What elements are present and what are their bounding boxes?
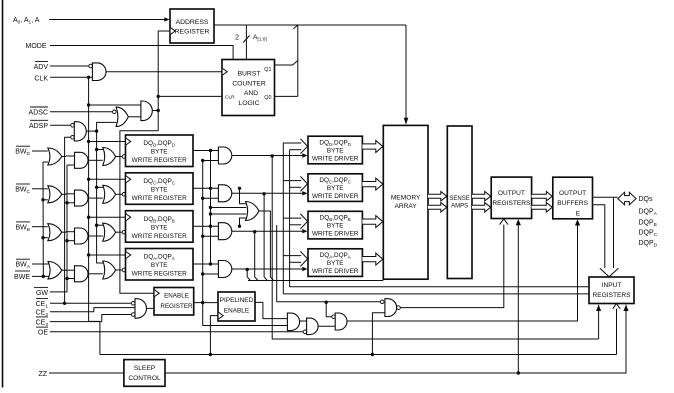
svg-text:OE: OE [38,330,48,337]
svg-text:BYTE: BYTE [327,148,344,155]
svg-text:DQA,DQPA: DQA,DQPA [320,252,351,260]
gate byte-write drive row1 (AND) [218,147,231,164]
wire GW riser tap row2 [67,202,75,204]
svg-text:Q1: Q1 [264,67,271,73]
svg-text:SENSE: SENSE [449,196,469,202]
wire CLK to pipelined enable clock [210,316,218,355]
wire CE3 to enable gate [50,315,131,322]
wire CLK tap register row2 [89,178,126,180]
junction dot CLK tap gateD [371,353,374,356]
wire enable-register tap row2 [203,197,219,199]
byte write driver box row3 [308,211,362,239]
svg-text:BYTE: BYTE [151,186,168,193]
wire data riser line4 feed [276,225,278,302]
svg-text:REGISTER: REGISTER [160,303,193,310]
wire enable-register tap row4 [203,273,219,275]
wire write-select to gateC [326,302,332,317]
wire G4 output to clock node [152,110,158,112]
arrowhead into input registers from write bus [596,305,601,311]
junction dot write-select tap [325,301,328,304]
wire gate5 input from row2 [240,188,246,204]
gate chip-enable (AND) [135,299,146,319]
clock input triangle of burst counter [223,68,228,75]
wire output buffers to DQ pads [593,196,618,198]
junction dot CLK branch [87,76,90,79]
wire enable tap to row OR gate row2 [97,186,104,188]
wire to row OR gate row2 [88,197,103,199]
hollow arrowhead into write driver row1 [300,139,307,154]
wire Q0 output to address bus [275,95,298,97]
wire CE1 to enable gate [50,302,131,304]
wire enable-register tap row3 [203,235,219,237]
junction dot GW riser [65,239,68,242]
pipelined enable box [218,292,255,321]
svg-text:DQC,DQPC: DQC,DQPC [143,178,175,186]
wire BWA to gate [32,263,49,265]
input registers box [589,277,634,304]
gate byte-write A input (OR) [48,262,62,279]
svg-text:E: E [576,210,581,217]
junction dot GW riser [65,201,68,204]
svg-text:BWE: BWE [14,274,30,281]
hollow arrowhead into output registers [500,219,509,225]
gate pipeline qualify D (AND) [385,299,397,317]
wire enable-register tap row1 [203,160,219,162]
wire G3 output to G4 [128,116,141,118]
svg-text:AMPS: AMPS [451,204,468,210]
wire write data line3 to input registers [283,293,589,295]
gate write-qualify row2 (AND) [75,190,89,206]
junction dot row3 enable [253,230,256,233]
junction dot enable register output [201,301,204,304]
hollow output arrow write driver row1 to memory array [362,141,382,153]
wire gate5 input from row3 [240,218,246,226]
address register box U1 [170,9,214,43]
junction dot register output bus [209,262,212,265]
svg-text:WRITE REGISTER: WRITE REGISTER [132,195,187,202]
svg-text:ENABLE: ENABLE [164,293,189,300]
sense amps box [447,126,472,279]
wire gateD output to output registers enable [400,224,504,308]
wire CLK to input registers clock [616,305,618,355]
byte write driver box row2 [308,174,362,202]
junction dot G2 output [95,129,98,132]
wire OE to gateB [50,331,303,333]
svg-text:LOGIC: LOGIC [238,100,259,107]
wire DQ bus down left side [593,205,605,268]
byte write register box row2 [126,173,194,205]
junction dot CLK tap [87,216,90,219]
inverting bubble write register row4 [122,268,126,272]
arrowhead into write driver row3 [302,229,307,233]
wire OR output to register bubble row4 [116,269,123,271]
junction dot CLK tap [87,253,90,256]
wire row3 enable branch [255,232,258,281]
wire to row OR gate row3 [88,235,103,237]
svg-text:OUTPUT: OUTPUT [559,190,586,197]
junction dot row1 enable [271,154,274,157]
arrowhead into address register [164,17,169,21]
svg-text:BYTE: BYTE [327,223,344,230]
svg-text:ZZ: ZZ [38,371,47,378]
wire address bus drop to burst counter [245,25,247,60]
junction dot register output bus [209,225,212,228]
wire GW riser tap row1 [67,164,75,166]
output buffers box [553,177,593,219]
hollow output arrow write driver row2 to memory array [362,178,382,190]
svg-text:ENABLE: ENABLE [224,308,249,315]
junction dot register output bus [209,149,212,152]
inverting bubble OE [303,330,307,334]
wire ZZ riser to output registers [517,224,519,373]
svg-text:ARRAY: ARRAY [394,203,417,210]
bus merge tick [294,25,298,29]
svg-text:DQs: DQs [639,196,654,203]
wire data tap lower row3 [290,224,302,226]
junction dot CLK tap pipelined [209,353,212,356]
wire write-qualify line4 [277,301,381,303]
wire CLR line to burst counter [158,95,222,97]
wire register output row1 [193,150,219,152]
hollow arrow memory to sense upper [428,191,447,201]
wire data tap upper row3 [283,217,301,219]
wire register output row4 [193,263,219,265]
bidirectional DQ arrow [618,192,636,205]
byte write register box row4 [126,249,194,281]
wire write-select line [248,280,383,282]
gate byte-write B input (OR) [48,224,62,241]
svg-text:OUTPUT: OUTPUT [498,190,525,197]
inverting bubble on ADV input [89,64,93,68]
gate byte-write D input (OR) [48,148,62,165]
svg-text:BURST: BURST [237,71,260,78]
svg-text:WRITE DRIVER: WRITE DRIVER [312,156,359,163]
gate register enable row4 (OR) [103,261,116,279]
svg-text:INPUT: INPUT [602,282,622,289]
gate G3 (OR) ADSC [116,107,128,126]
wire BWE riser tap to gate [43,237,48,239]
wire BWb to row gate [32,226,48,228]
wire gate5 input lower [211,213,247,215]
junction dot BWE riser [41,236,44,239]
svg-text:BYTE: BYTE [151,224,168,231]
svg-text:ADSC: ADSC [29,110,48,117]
inverting bubble gateD input [380,300,384,304]
svg-text:DQA,DQPA: DQA,DQPA [144,254,175,262]
gate output-enable B (AND) [307,318,319,335]
wire OR output to register bubble row3 [116,231,123,233]
svg-text:DQD,DQPD: DQD,DQPD [143,140,175,148]
wire enable register output [194,302,218,304]
clock triangle write register row4 [126,252,131,259]
gate G4 (AND) load clock [141,101,152,121]
wire G2 output up to G3 input [97,122,117,131]
wire ADSP to gate G2 [50,124,71,126]
hollow output arrow write driver row4 to memory array [362,253,382,265]
arrowhead solid into output registers [516,219,521,225]
wire burst counter feedback vertical [297,25,299,96]
junction dot BWE branch [42,275,45,278]
byte write register box row3 [126,211,194,243]
svg-text:DQD,DQPD: DQD,DQPD [319,140,351,148]
junction dot enable tap [201,272,204,275]
wire CLK tap to gate G4 [89,104,141,106]
wire CLK distribution vertical [89,77,100,354]
wire Q1 output to address bus [275,61,298,66]
svg-text:BYTE: BYTE [151,262,168,269]
hollow arrow sense to output registers upper [472,191,491,201]
hollow arrow memory to sense lower [428,203,447,213]
wire CE2 to enable gate [50,308,135,312]
wire drive gate output row1 [232,155,303,157]
svg-text:WRITE DRIVER: WRITE DRIVER [312,231,359,238]
gate global-write G5 (OR) [246,202,259,221]
gate G2 (AND) ADSP qualify [74,122,86,141]
junction dot GW riser [65,277,68,280]
clock triangle write register row3 [126,214,131,221]
svg-text:GW: GW [36,290,48,297]
wire gate output row4 [62,269,75,271]
gate byte-write drive row2 (AND) [218,185,231,202]
clock triangle enable register [155,290,160,297]
svg-text:SLEEP: SLEEP [134,365,156,372]
inverting bubble CE1 [131,302,135,306]
wire data tap lower row2 [290,186,302,188]
svg-text:CLR: CLR [225,95,235,101]
wire GW riser tap row3 [67,240,75,242]
junction dot row4 enable [246,268,249,271]
svg-text:CONTROL: CONTROL [128,375,161,382]
hollow arrow output registers to buffers lower [532,203,553,213]
wire gateA to gateB [300,320,307,322]
hollow output arrow write driver row3 to memory array [362,216,382,228]
wire row2 enable branch [264,194,267,281]
junction dot gate5 tap lower [209,212,212,215]
wire G2 output node [86,130,96,132]
wire DQ bus down right side [613,197,615,268]
wire enable tap to row OR gate row1 [97,149,104,151]
arrowhead into memory array top [404,118,409,125]
wire register output collect bus [210,151,212,265]
inverting bubble CE3 [131,313,135,317]
hollow arrowhead into write driver row2 [300,176,307,191]
wire BWd to row gate [32,150,48,152]
inverting bubble on chip-enable input of G2 [71,136,75,140]
svg-text:WRITE REGISTER: WRITE REGISTER [132,233,187,240]
wire gate5 output [259,211,274,281]
gate write-qualify row3 (AND) [75,228,89,244]
svg-text:WRITE REGISTER: WRITE REGISTER [132,271,187,278]
wire write data line2 to input registers [290,286,589,288]
svg-text:BYTE: BYTE [327,185,344,192]
wire gate5 input upper [211,207,247,209]
inverting bubble gateD output [397,306,401,310]
svg-text:WRITE DRIVER: WRITE DRIVER [312,193,359,200]
wire data tap upper row1 [283,142,301,144]
svg-text:BUFFERS: BUFFERS [557,200,588,207]
wire data tap upper row4 [283,255,301,257]
wire enable register output riser [203,161,288,326]
wire A0A1A to address register [49,19,165,21]
arrowhead into write driver row4 [302,267,307,271]
gate write-qualify row1 (AND) [75,152,89,168]
gate register enable row1 (OR) [103,148,116,166]
wire CLK riser to gateD [372,313,385,355]
wire drive gate output row4 [232,268,303,270]
junction dot CLR tap [157,95,160,98]
wire CLK bottom distribution [100,354,613,356]
gate byte-write drive row3 (AND) [218,223,231,240]
wire drive gate output row2 [232,192,303,194]
wire CLK to clock gate [50,76,92,78]
gate register enable row2 (OR) [103,185,116,203]
wire MODE to burst counter [50,46,233,60]
hollow arrow sense to output registers lower [472,203,491,213]
wire address bus A [214,24,406,26]
wire BWE to gate [32,275,49,277]
wire drive gate output row3 [232,230,303,232]
svg-text:MEMORY: MEMORY [391,195,421,202]
svg-text:BYTE: BYTE [151,149,168,156]
gate byte-write drive row4 (AND) [218,261,231,278]
clock triangle write register row1 [126,138,131,145]
wire BWE riser tap to gate [43,161,48,163]
hollow arrow output registers to buffers upper [532,191,553,201]
clock triangle pipelined enable [219,312,224,319]
junction dot enable tap [201,235,204,238]
wire pipelined enable output [255,302,288,318]
memory array box [383,125,428,279]
svg-text:WRITE REGISTER: WRITE REGISTER [132,157,187,164]
junction dot row2 enable [262,192,265,195]
wire enable gate to enable register [147,307,155,309]
wire gate1 output row2 [62,193,66,195]
gate write-qualify row4 (AND) [75,266,89,282]
inverting bubble write register row1 [122,155,126,159]
svg-text:REGISTERS: REGISTERS [492,200,531,207]
junction dot enable tap [201,197,204,200]
junction dot row2 to gate5 [238,187,241,190]
inverting bubble gateC [332,315,336,319]
byte write driver box row1 [308,136,362,164]
wire enable tap to row OR gate row4 [97,131,104,263]
gate byte-write C input (OR) [48,186,62,203]
inverting bubble write register row3 [122,230,126,234]
wire gate1 output row3 [62,231,66,233]
gate output-enable A (AND) [287,313,299,331]
svg-text:PIPELINED: PIPELINED [220,297,254,304]
junction dot enable bus [95,186,98,189]
wire OR output to register bubble row1 [116,156,123,158]
arrowhead into output buffers E [575,219,580,225]
wire row1 enable branch down to input registers [272,156,598,339]
svg-text:DQC,DQPC: DQC,DQPC [319,177,351,185]
output registers box [491,177,531,218]
arrowhead sleep into input registers [623,305,628,311]
svg-text:BYTE: BYTE [327,260,344,267]
wire GW riser tap row4 [67,278,75,280]
sleep control box [124,360,165,387]
bus width slash mark [243,36,249,43]
svg-text:AND: AND [244,90,258,97]
arrowhead into write driver row2 [302,191,307,195]
wire address bus to memory array [405,25,407,118]
wire BWc to row gate [32,188,48,190]
wire CLK tap register row1 [89,141,126,143]
junction dot CLK to G4 [87,103,90,106]
svg-text:ADDRESS: ADDRESS [176,19,209,26]
wire OR output to register bubble row2 [116,193,123,195]
hollow arrowhead into input registers [600,268,619,277]
svg-text:REGISTERS: REGISTERS [592,292,631,299]
wire register output row2 [193,187,219,189]
clock input triangle of address register [171,28,176,35]
wire clock gate output to burst counter clock [106,71,222,73]
svg-text:2: 2 [235,35,239,42]
wire to row OR gate row4 [88,273,103,275]
svg-text:Q0: Q0 [264,95,271,101]
clock triangle write register row2 [126,176,131,183]
arrowhead into write driver row1 [302,153,307,157]
wire data bus riser outer [282,143,284,294]
inverting bubble on ADSP input [71,124,75,128]
hollow arrowhead into write driver row3 [300,214,307,229]
wire BWE riser vertical [42,162,44,276]
wire CE1 feedback riser to G2 [65,137,71,303]
byte write driver box row4 [308,249,362,277]
wire data tap lower row1 [290,149,302,151]
junction dot CLK tap [87,178,90,181]
junction dot BWE riser [41,198,44,201]
enable register box [154,288,194,316]
junction dot enable bus [95,148,98,151]
junction dot ZZ riser [517,371,520,374]
junction dot gate5 tap upper [209,206,212,209]
svg-text:DQB,DQPB: DQB,DQPB [320,215,351,223]
junction dot enable tap [201,159,204,162]
wire CLK tap register row3 [89,216,126,218]
wire data tap lower row4 [290,261,302,263]
gate output-enable C (AND) [335,313,347,330]
junction dot register output bus [209,187,212,190]
wire register output row3 [193,225,219,227]
svg-text:COUNTER: COUNTER [232,81,266,88]
junction dot enable bus [95,224,98,227]
wire to row OR gate row1 [88,159,103,161]
wire data tap upper row2 [283,180,301,182]
junction dot CE1 riser [63,302,66,305]
hollow arrowhead into write driver row4 [300,251,307,266]
wire enable tap to row OR gate row3 [97,224,104,226]
svg-text:CLK: CLK [34,75,48,82]
svg-text:ADV: ADV [34,64,49,71]
wire load clock vertical [120,31,170,293]
svg-text:DQB,DQPB: DQB,DQPB [144,216,175,224]
svg-text:WRITE DRIVER: WRITE DRIVER [312,268,359,275]
junction dot row3 to gate5 [238,225,241,228]
gate register enable row3 (OR) [103,223,116,241]
wire gateB to gateC [318,325,335,327]
burst counter box U2 [222,60,275,116]
wire CLK tap register row4 [89,254,126,256]
inverting bubble on ADSC input [113,110,117,114]
wire ADSC to gate G3 [50,111,113,113]
junction dot CLK tap [87,140,90,143]
junction dot load clock node [157,109,160,112]
wire GW to riser [50,165,67,292]
wire row4 enable branch [247,270,250,281]
wire sleep control to input registers [165,305,626,373]
